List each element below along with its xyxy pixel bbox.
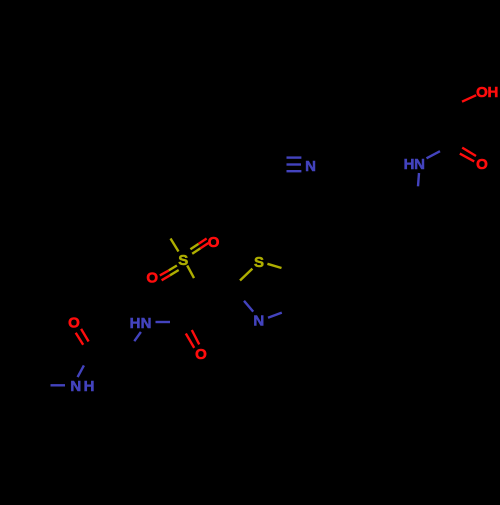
svg-text:O: O	[208, 234, 220, 251]
wire C=O amide top-right line2	[460, 154, 474, 162]
svg-text:H: H	[404, 156, 415, 173]
svg-text:O: O	[476, 156, 488, 173]
wire S=O upper-right red half line1	[199, 239, 207, 244]
svg-text:S: S	[254, 254, 264, 271]
svg-text:N: N	[253, 313, 264, 330]
wire nitrile triple bond top line	[287, 156, 302, 158]
wire HN-CH bond center amide	[134, 332, 141, 341]
wire C=O amide left line2	[76, 333, 84, 345]
wire S-CH3 bond	[171, 239, 179, 252]
wire S=O lower-left olive half line1	[169, 266, 177, 271]
svg-text:O: O	[68, 315, 80, 332]
wire nitrile triple bond bottom line	[287, 170, 302, 172]
wire thiazole S-C2 bond	[240, 269, 252, 281]
svg-text:N: N	[305, 158, 316, 175]
wire nitrile triple bond middle line	[287, 163, 302, 165]
wire thiazole C2-N bond	[244, 301, 253, 312]
wire NH-CH3 bond left amide	[51, 384, 66, 386]
svg-text:O: O	[146, 269, 158, 286]
wire S=O upper-right red half line2	[200, 243, 208, 248]
wire C=O amide center line1	[192, 330, 199, 344]
wire thiazole N-C4 bond	[268, 313, 282, 318]
svg-text:O: O	[195, 346, 207, 363]
wire HN-C bond center amide	[156, 321, 171, 323]
svg-text:N: N	[141, 315, 152, 332]
wire NH-C bond left amide	[78, 365, 84, 377]
wire S=O lower-left olive half line2	[170, 270, 179, 275]
svg-text:N: N	[414, 156, 425, 173]
wire C=O amide left line1	[81, 329, 89, 342]
wire O-CH2 hydroxyl bond	[462, 95, 476, 102]
wire S=O upper-right olive half line1	[190, 244, 198, 249]
svg-text:N: N	[70, 378, 81, 395]
wire S=O lower-left red half line1	[160, 270, 169, 275]
wire S=O upper-right olive half line2	[192, 248, 200, 253]
wire S-C central bond	[187, 266, 194, 279]
wire thiazole S-C5 bond	[267, 264, 281, 268]
wire HN-C bond top-right	[427, 151, 441, 158]
svg-text:H: H	[487, 84, 498, 101]
svg-text:O: O	[476, 84, 488, 101]
wire S=O lower-left red half line2	[162, 275, 170, 280]
svg-text:H: H	[84, 378, 95, 395]
svg-text:S: S	[178, 252, 188, 269]
wire C=O amide center line2	[186, 334, 194, 348]
svg-text:H: H	[130, 315, 141, 332]
wire HN-ring bond top-right	[418, 173, 419, 186]
wire C=O amide top-right line1	[462, 148, 476, 156]
